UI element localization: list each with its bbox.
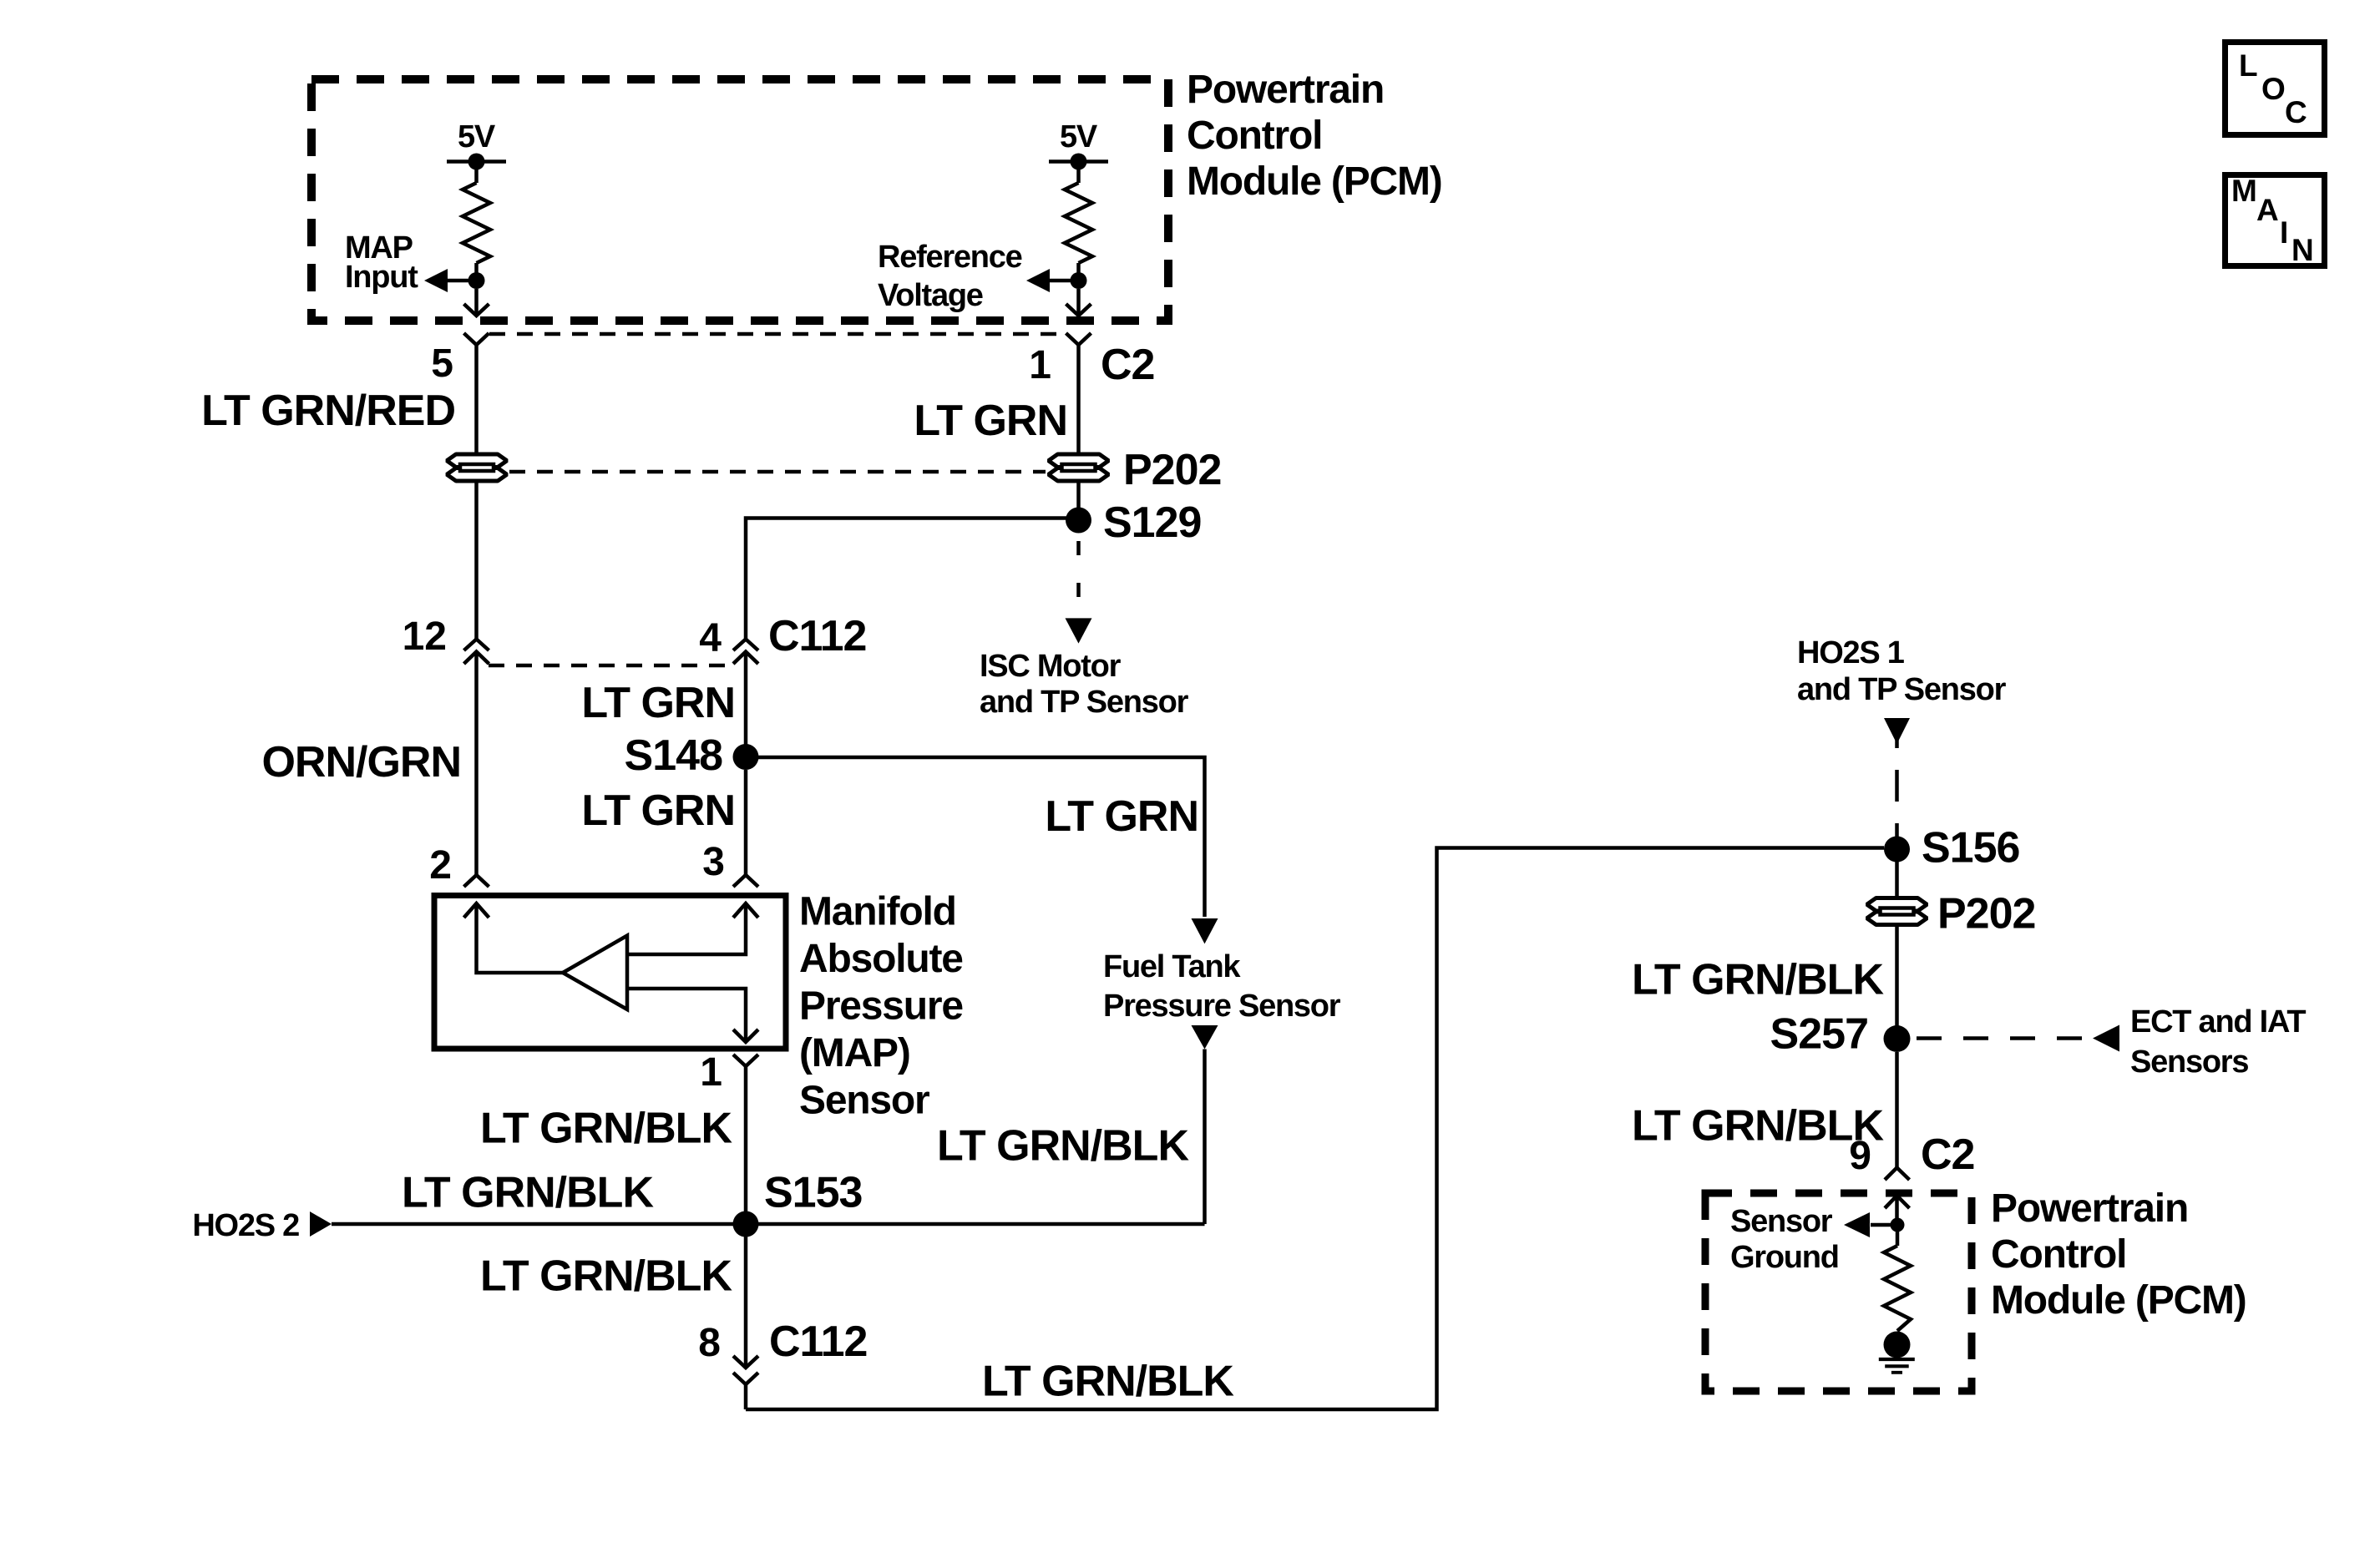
svg-text:HO2S 2: HO2S 2	[192, 1208, 299, 1243]
svg-text:Voltage: Voltage	[878, 278, 983, 313]
svg-text:LT GRN: LT GRN	[1045, 792, 1198, 841]
male terminal arrow pin 1	[1066, 304, 1091, 316]
svg-text:and TP Sensor: and TP Sensor	[1797, 672, 2007, 707]
arrow to Fuel Tank Pressure Sensor	[1192, 918, 1218, 943]
svg-text:12: 12	[403, 615, 447, 659]
wire	[474, 162, 479, 184]
node: 5V tap dot left	[468, 154, 485, 170]
svg-text:and TP Sensor: and TP Sensor	[980, 685, 1189, 720]
wire S129 left then down to C112 pin 4	[746, 518, 1079, 640]
node: sensor ground tap dot	[1891, 1218, 1905, 1232]
resistor R-right (reference pull-up)	[1065, 183, 1092, 263]
svg-text:4: 4	[699, 616, 722, 660]
svg-text:Sensor: Sensor	[799, 1079, 929, 1123]
MAP sensor box	[434, 896, 786, 1050]
male terminal arrow pin 9 (PCM side)	[1885, 1196, 1910, 1225]
connector C2 dashed line	[489, 332, 1066, 336]
male terminal arrow pin 4	[733, 652, 758, 674]
svg-text:LT GRN: LT GRN	[581, 787, 735, 835]
ground dot	[1884, 1332, 1911, 1358]
svg-text:LT GRN/BLK: LT GRN/BLK	[402, 1169, 654, 1217]
svg-text:L: L	[2239, 48, 2258, 83]
long wire C112-8 to S156	[746, 848, 1884, 1410]
node S153	[733, 1211, 759, 1237]
resistor (PCM internal to ground)	[1884, 1246, 1911, 1331]
wire pin 4 down to S148	[744, 673, 748, 757]
resistor R-left (PCM pull-up)	[463, 183, 490, 263]
svg-text:LT GRN: LT GRN	[581, 679, 735, 727]
MAP internal buffer triangle	[563, 936, 627, 1010]
wire S156 to grommet	[1895, 849, 1899, 898]
node: MAP input tap dot	[468, 272, 485, 289]
wire	[474, 289, 479, 316]
svg-text:3: 3	[702, 840, 725, 884]
arrow from HO2S 1	[1884, 718, 1910, 744]
svg-text:5V: 5V	[1060, 119, 1098, 154]
svg-text:1: 1	[1029, 343, 1051, 387]
svg-text:O: O	[2261, 72, 2286, 106]
female terminal fork pin 5	[464, 333, 489, 352]
wire pin 12 down to MAP pin 2	[474, 673, 479, 875]
svg-text:A: A	[2256, 193, 2279, 227]
svg-text:Powertrain: Powertrain	[1187, 68, 1384, 112]
svg-text:Reference: Reference	[878, 240, 1022, 275]
svg-text:ISC Motor: ISC Motor	[980, 649, 1122, 684]
grommet P202 (right column)	[1867, 898, 1927, 925]
svg-text:9: 9	[1849, 1134, 1871, 1178]
node S156	[1884, 837, 1910, 862]
wire MAP pin1 down to S153	[744, 1077, 748, 1224]
MAP internal bottom output wire	[627, 989, 746, 1042]
wire to Reference Voltage arrow	[1050, 279, 1079, 283]
MAP internal top input wire	[627, 903, 746, 954]
svg-text:LT GRN/BLK: LT GRN/BLK	[480, 1252, 732, 1301]
wire pin1 to grommet	[1076, 352, 1081, 453]
grommet P202 left	[447, 454, 507, 481]
wire	[1076, 162, 1081, 184]
svg-text:P202: P202	[1937, 890, 2035, 938]
PCM module dashed box (bottom right)	[1705, 1193, 1972, 1391]
female terminal fork pin 9	[1885, 1168, 1910, 1181]
wire	[1076, 289, 1081, 316]
svg-text:P202: P202	[1123, 446, 1221, 494]
svg-text:Module (PCM): Module (PCM)	[1187, 159, 1442, 204]
male terminal arrow pin 12	[464, 652, 489, 674]
svg-text:M: M	[2231, 174, 2257, 208]
svg-text:Powertrain: Powertrain	[1991, 1186, 2188, 1231]
MAP internal left arrow up (pin 2)	[464, 903, 564, 973]
arrow from Fuel Tank Pressure Sensor	[1192, 1025, 1218, 1050]
ground symbol	[1879, 1358, 1915, 1374]
svg-text:2: 2	[429, 843, 452, 888]
wire from fuel tank arrow down to S153 wire	[1203, 1050, 1207, 1225]
female terminal fork pin 1	[1066, 333, 1091, 352]
node: 5V tap dot right	[1071, 154, 1087, 170]
svg-text:C112: C112	[768, 612, 866, 660]
wire	[474, 263, 479, 281]
svg-text:LT GRN/BLK: LT GRN/BLK	[1632, 1102, 1884, 1151]
arrow from HO2S 2	[310, 1211, 332, 1237]
5V supply bar right	[1049, 159, 1108, 164]
svg-text:Pressure Sensor: Pressure Sensor	[1103, 989, 1341, 1024]
svg-text:LT GRN/BLK: LT GRN/BLK	[937, 1122, 1189, 1171]
svg-text:Absolute: Absolute	[799, 937, 963, 981]
dashed wire S257 to ECT/IAT	[1917, 1036, 2093, 1040]
svg-text:C2: C2	[1101, 341, 1154, 389]
wire S257 down to C2 pin 9	[1895, 1052, 1899, 1168]
female terminal fork pin 12	[464, 640, 489, 651]
node S148	[733, 744, 759, 770]
male terminal arrow pin 5	[464, 304, 489, 316]
arrow to ECT and IAT Sensors	[2093, 1025, 2119, 1052]
wire grommet left down to C112 pin 12	[474, 482, 479, 640]
MAP internal right arrow up (pin 3)	[733, 903, 758, 918]
wire S148 right then down to fuel tank arrow	[746, 757, 1205, 917]
svg-text:Module (PCM): Module (PCM)	[1991, 1278, 2246, 1323]
wire S153 down to C112 pin 8	[744, 1224, 748, 1368]
female terminal fork pin 3	[733, 875, 758, 887]
svg-text:I: I	[2280, 215, 2288, 250]
arrow to ISC Motor	[1066, 618, 1092, 643]
svg-text:C: C	[2285, 95, 2307, 129]
svg-text:HO2S 1: HO2S 1	[1797, 635, 1905, 670]
svg-text:ORN/GRN: ORN/GRN	[261, 738, 461, 787]
dashed wire S129 to ISC	[1076, 541, 1081, 618]
node: reference voltage tap dot	[1071, 272, 1087, 289]
svg-text:8: 8	[698, 1321, 721, 1365]
female terminal fork pin 2	[464, 875, 489, 887]
svg-text:S257: S257	[1770, 1010, 1868, 1059]
MAIN reference box	[2226, 175, 2325, 266]
svg-text:(MAP): (MAP)	[799, 1031, 910, 1075]
wire S148 down to MAP pin 3	[744, 770, 748, 875]
svg-text:S156: S156	[1922, 824, 2020, 873]
female terminal fork pin 1 (MAP)	[733, 1055, 758, 1077]
wire pin5 to grommet	[474, 352, 479, 453]
wire S153 right then up to fuel tank	[746, 1222, 1205, 1227]
svg-text:LT GRN/RED: LT GRN/RED	[201, 387, 455, 435]
svg-text:Control: Control	[1187, 114, 1322, 158]
svg-text:1: 1	[700, 1050, 722, 1095]
PCM module dashed box (top)	[311, 79, 1168, 321]
svg-text:5V: 5V	[458, 119, 496, 154]
wire HO2S2 to S153	[332, 1222, 746, 1227]
svg-text:ECT and IAT: ECT and IAT	[2130, 1004, 2306, 1040]
svg-text:S129: S129	[1103, 498, 1201, 547]
svg-text:LT GRN/BLK: LT GRN/BLK	[1632, 956, 1884, 1004]
svg-text:LT GRN: LT GRN	[914, 397, 1067, 445]
wire grommet to S257	[1895, 926, 1899, 1040]
connector C112 dashed line	[489, 664, 733, 668]
svg-text:LT GRN/BLK: LT GRN/BLK	[982, 1358, 1234, 1406]
svg-text:N: N	[2291, 233, 2314, 267]
LOC reference box	[2226, 43, 2325, 135]
5V supply bar left	[447, 159, 506, 164]
dashed wire HO2S1 to S156	[1895, 734, 1899, 748]
arrow to Reference Voltage	[1026, 269, 1050, 292]
svg-text:Manifold: Manifold	[799, 890, 956, 934]
female terminal fork pin 4	[733, 640, 758, 651]
dashed pass-through line P202	[509, 470, 1046, 474]
svg-text:S148: S148	[625, 731, 723, 780]
wire	[1076, 263, 1081, 281]
female terminal fork pin 8	[733, 1373, 758, 1409]
node S257	[1884, 1025, 1911, 1052]
svg-text:Sensor: Sensor	[1730, 1204, 1833, 1239]
svg-text:5: 5	[431, 341, 453, 386]
svg-text:Control: Control	[1991, 1232, 2126, 1277]
svg-text:Pressure: Pressure	[799, 984, 963, 1029]
grommet P202 right	[1049, 454, 1109, 481]
wire	[1896, 1225, 1900, 1246]
svg-text:LT GRN/BLK: LT GRN/BLK	[480, 1105, 732, 1153]
svg-text:Sensors: Sensors	[2130, 1045, 2248, 1080]
male terminal arrow pin 8	[733, 1356, 758, 1368]
wire to Sensor Ground arrow	[1871, 1223, 1897, 1227]
svg-text:Input: Input	[345, 260, 418, 295]
arrow to MAP Input	[424, 269, 448, 292]
wire grommet to S129	[1076, 482, 1081, 520]
svg-text:C2: C2	[1921, 1131, 1974, 1179]
arrow to Sensor Ground	[1844, 1212, 1870, 1237]
node S129	[1066, 508, 1091, 534]
MAP internal down arrow (pin 1)	[733, 1029, 758, 1042]
svg-text:Ground: Ground	[1730, 1240, 1839, 1275]
svg-text:S153: S153	[764, 1169, 863, 1217]
svg-text:Fuel Tank: Fuel Tank	[1103, 949, 1241, 984]
svg-text:C112: C112	[769, 1318, 867, 1366]
wire to MAP Input arrow	[448, 279, 477, 283]
